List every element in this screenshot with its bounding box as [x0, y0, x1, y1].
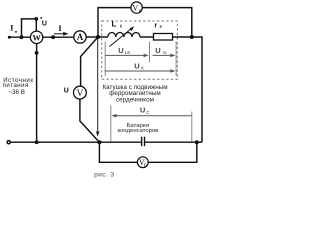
node: dot right of W [51, 35, 55, 39]
wire: below V down and diagonal to bottom wire [80, 99, 100, 142]
dropline middle inside box [149, 42, 151, 63]
wire: Vk loop right part [142, 8, 192, 37]
variable-inductor arrow through Lk [110, 28, 133, 46]
ammeter A [74, 31, 86, 43]
svg-text:конденсаторов: конденсаторов [117, 128, 158, 134]
dropline U_C right [191, 112, 193, 143]
wire: A to node [86, 36, 98, 38]
inductor Lk (4 humps) [108, 33, 140, 38]
node: dot below W [35, 51, 39, 55]
wire: bottom wire left of capacitor [9, 141, 141, 143]
capacitor C (battery of capacitors) [141, 137, 143, 147]
node: main top junction [96, 35, 100, 39]
node: corner dot of voltage loop [34, 17, 38, 21]
wire: node to inductor [98, 36, 108, 38]
node: Vc branch left junction [97, 140, 101, 144]
polarity asterisk near I [15, 31, 17, 33]
wire: inductor to resistor [140, 36, 154, 38]
svg-text:V: V [76, 89, 83, 99]
node: junction right of resistor [190, 35, 194, 39]
node: junction of wattmeter voltage loop on input wire [20, 35, 24, 39]
terminal: input top-left [8, 36, 11, 39]
svg-text:L: L [111, 20, 116, 29]
arrow U_C (pointing left) [114, 115, 191, 117]
dropline U_C left [110, 105, 112, 142]
svg-text:U: U [140, 106, 145, 115]
svg-text:W: W [32, 32, 41, 42]
svg-text:U: U [118, 46, 123, 55]
wire: left vertical from W bottom to bottom wire [36, 44, 38, 143]
wattmeter W [30, 31, 42, 43]
svg-text:U: U [134, 61, 139, 70]
wire: wattmeter voltage-coil loop (up, right, down into W top) [22, 19, 37, 37]
wire: W right to junction dot [43, 36, 74, 38]
arrow U_K [105, 70, 173, 72]
arrow U_LK [105, 54, 146, 56]
node: Vc branch right junction [195, 140, 199, 144]
arrow U_rK [153, 54, 173, 56]
dashed enclosure: coil box [102, 21, 178, 79]
svg-text:U: U [64, 88, 69, 95]
resistor rk [154, 34, 173, 41]
svg-text:сердечником: сердечником [116, 97, 154, 104]
wire: resistor right to corner and down right side [173, 37, 203, 142]
arrow U (vertical, from top node down) [97, 39, 99, 134]
svg-text:r: r [154, 20, 157, 29]
terminal: input bottom-left [7, 141, 10, 144]
voltmeter V [74, 86, 87, 99]
wire: Vc loop left [99, 142, 137, 162]
wire: Vc loop right [148, 142, 197, 162]
wire: bottom wire right of capacitor [145, 141, 202, 143]
wire: Vk measuring loop [98, 8, 131, 37]
svg-text:A: A [77, 32, 84, 42]
polarity asterisk near U [40, 17, 42, 19]
dropline left inside box [104, 42, 106, 77]
svg-text:c: c [144, 162, 147, 168]
svg-text:U: U [42, 21, 47, 28]
svg-text:U: U [155, 46, 160, 55]
wire: diagonal from top junction down to voltmeter V [81, 37, 98, 86]
wire: top main wire left segment terminal to W [9, 36, 30, 38]
wire: current arrow [54, 33, 66, 35]
node: bottom of left vertical [35, 140, 39, 144]
svg-text:~36 В: ~36 В [8, 89, 25, 96]
svg-text:рис. 3: рис. 3 [94, 171, 114, 178]
svg-text:V: V [132, 4, 138, 13]
svg-text:LK: LK [125, 50, 132, 56]
voltmeter Vk [131, 2, 142, 13]
voltmeter Vc [137, 157, 148, 168]
dropline right inside box [175, 42, 177, 77]
